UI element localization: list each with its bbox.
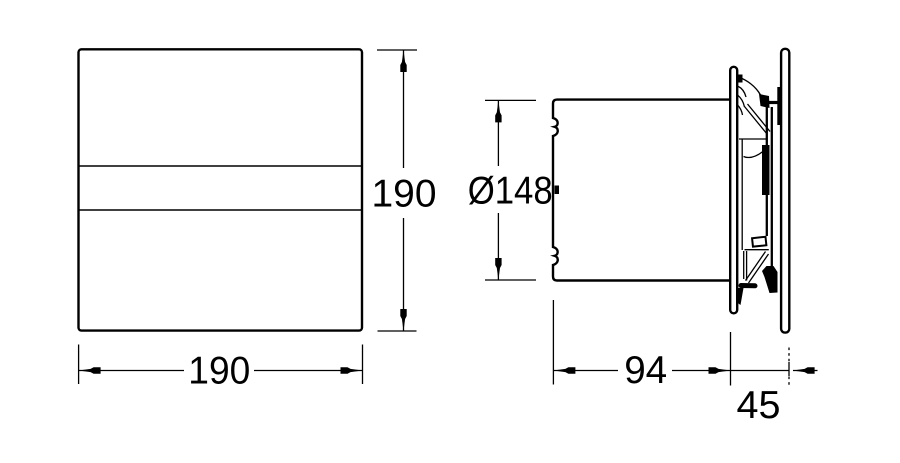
svg-text:45: 45: [737, 384, 781, 427]
svg-text:Ø148: Ø148: [468, 170, 553, 213]
svg-text:94: 94: [624, 349, 667, 392]
svg-text:190: 190: [372, 173, 437, 216]
svg-text:190: 190: [188, 350, 250, 393]
